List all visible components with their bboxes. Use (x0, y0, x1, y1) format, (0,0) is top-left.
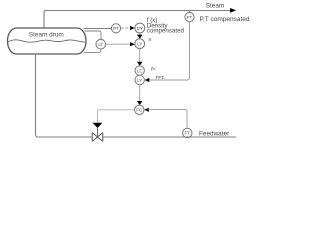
wire: FT steam signal down to LY summer (148, 22, 190, 80)
arrowhead into LY (130, 42, 135, 46)
svg-text:Feedwater: Feedwater (199, 130, 230, 137)
instrument FC (135, 105, 144, 114)
svg-text:PI: PI (151, 67, 156, 73)
svg-text:PT: PT (113, 26, 119, 31)
wire: steam riser from drum top (44, 11, 230, 29)
instrument DY (135, 23, 145, 33)
instrument LY summer (135, 75, 144, 84)
svg-text:P,T compensated: P,T compensated (200, 16, 250, 23)
svg-text:compensated: compensated (147, 28, 185, 35)
svg-text:FC: FC (136, 108, 143, 113)
svg-text:LY: LY (137, 78, 142, 83)
arrowhead into FC right (144, 108, 149, 112)
wire: PT to DY dashed (121, 27, 132, 29)
wire: LY summer down to FC (139, 85, 141, 102)
wire: upper tap to PT (84, 28, 112, 30)
arrowhead into DY (130, 26, 135, 30)
wire: downcomer and feedwater pipe (36, 54, 93, 137)
svg-text:LY: LY (137, 42, 142, 47)
svg-text:Steam drum: Steam drum (29, 32, 64, 39)
instrument LT (96, 39, 106, 49)
instrument LC (135, 66, 144, 75)
svg-text:FT: FT (185, 131, 191, 136)
vessel: steam drum (8, 28, 87, 54)
water level wavy line (8, 40, 86, 42)
svg-text:LT: LT (98, 42, 103, 47)
wire: LT to LY (106, 43, 132, 45)
instrument LY multiplier (135, 39, 145, 49)
wire: lower tap from LT to drum (84, 49, 101, 53)
wire: LY down to LC (139, 49, 141, 62)
instrument FT feedwater (183, 128, 192, 137)
wire: FC signal to valve (98, 110, 135, 123)
svg-text:FFΣ: FFΣ (156, 75, 165, 81)
valve actuator (93, 123, 103, 128)
wire: feedwater FT signal up to FC (148, 109, 187, 128)
arrowhead steam line (230, 8, 236, 13)
wire: upper tap branch to LT (85, 31, 102, 39)
arrowhead into LY summer (145, 78, 150, 82)
svg-text:FT: FT (187, 15, 193, 20)
arrow DY to LY (139, 33, 141, 35)
instrument PT (111, 24, 120, 33)
svg-text:X: X (148, 37, 152, 43)
svg-text:Steam: Steam (206, 2, 224, 9)
arrowhead into LC (137, 62, 143, 66)
svg-text:LC: LC (137, 68, 144, 73)
arrowhead into FC top (137, 101, 143, 105)
instrument FT steam (185, 11, 194, 22)
svg-text:DY: DY (137, 26, 143, 31)
control valve body (92, 133, 103, 142)
